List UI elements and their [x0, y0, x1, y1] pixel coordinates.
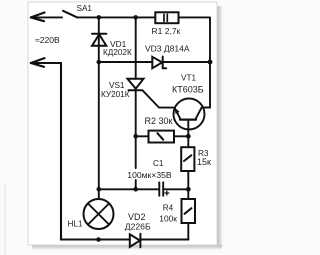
node HL1 bottom	[96, 237, 101, 242]
resistor R4	[182, 199, 196, 223]
svg-text:VT1: VT1	[181, 74, 196, 83]
svg-text:КД202К: КД202К	[103, 48, 132, 57]
svg-text:HL1: HL1	[68, 220, 83, 229]
svg-text:R1 2,7к: R1 2,7к	[152, 26, 181, 36]
node C1 right	[186, 187, 191, 192]
svg-text:С1: С1	[153, 159, 164, 168]
node VD3 right rail	[208, 60, 213, 65]
wire VS1 cathode down	[135, 90, 137, 168]
wire	[31, 16, 62, 18]
svg-text:VD2: VD2	[128, 212, 146, 222]
resistor R1	[155, 12, 178, 23]
lamp HL1	[84, 199, 114, 229]
svg-text:VS1: VS1	[109, 81, 125, 90]
diode VD2	[130, 234, 141, 248]
input terminal arrow top	[31, 13, 45, 22]
wire	[187, 223, 189, 240]
vertical wire VS1 branch	[135, 17, 137, 78]
resistor R2	[136, 135, 149, 137]
node VT1 base	[186, 134, 191, 139]
transistor VT1	[174, 99, 205, 130]
wire	[163, 61, 210, 63]
svg-text:R2 30к: R2 30к	[145, 116, 173, 126]
diode VD1	[92, 34, 106, 46]
svg-text:SA1: SA1	[77, 4, 93, 13]
capacitor C1	[99, 188, 159, 190]
faint page-edge artifact line	[4, 183, 6, 255]
vertical wire VD1/HL1 branch	[98, 17, 100, 199]
wire VT1 base down	[187, 120, 189, 148]
svg-text:R4: R4	[163, 204, 174, 213]
wire	[179, 16, 211, 18]
wire	[187, 171, 189, 199]
switch SA1	[63, 11, 77, 17]
node VS1 anode top	[133, 15, 138, 20]
wire right rail	[203, 17, 210, 107]
node R2 left	[133, 134, 138, 139]
svg-text:КТ603Б: КТ603Б	[172, 85, 204, 95]
wire bottom rail right	[140, 238, 188, 240]
resistor R3	[181, 147, 194, 171]
svg-text:15к: 15к	[197, 157, 211, 167]
svg-text:Д226Б: Д226Б	[125, 221, 151, 231]
svg-text:100к: 100к	[159, 213, 177, 223]
wire node VD1-VD3	[99, 61, 153, 63]
wire	[31, 62, 61, 64]
wire VS1 gate to VT1 emitter	[143, 90, 174, 107]
wire left rail	[61, 63, 130, 240]
svg-text:КУ201К: КУ201К	[101, 90, 130, 99]
node C1 left	[133, 187, 138, 192]
svg-text:≈220В: ≈220В	[35, 35, 60, 45]
zener VD3	[152, 57, 166, 69]
node HL1 top	[97, 187, 102, 192]
page background	[0, 0, 255, 255]
node SA1/VD1	[97, 15, 102, 20]
input terminal arrow bottom	[31, 58, 45, 67]
thyristor VS1	[128, 79, 144, 91]
svg-text:VD3 Д814А: VD3 Д814А	[145, 44, 190, 54]
svg-text:100мк×35В: 100мк×35В	[127, 170, 172, 180]
wire	[77, 16, 155, 18]
node VD1 anode	[97, 60, 102, 65]
